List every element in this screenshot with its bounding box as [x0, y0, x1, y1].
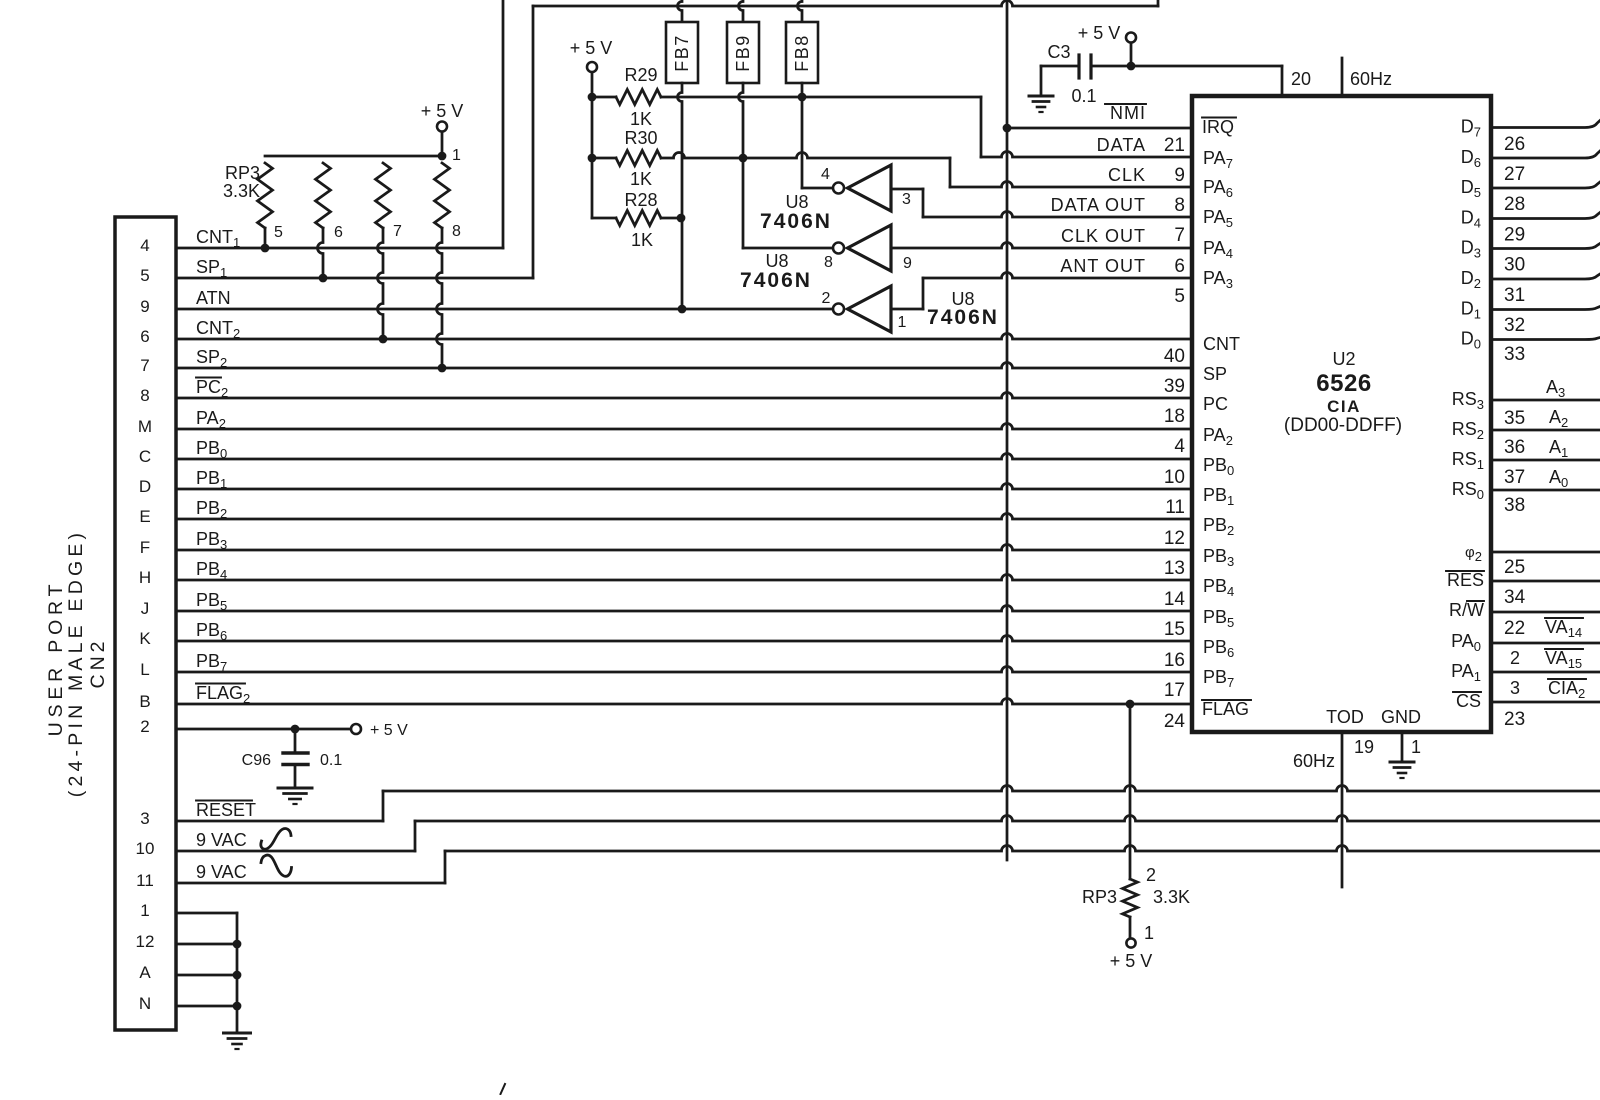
- svg-text:IRQ: IRQ: [1202, 117, 1234, 137]
- svg-text:37: 37: [1504, 467, 1525, 488]
- svg-text:FB9: FB9: [733, 34, 753, 72]
- svg-text:18: 18: [1164, 406, 1185, 427]
- svg-text:9 VAC: 9 VAC: [196, 862, 247, 882]
- svg-text:D: D: [139, 477, 151, 496]
- svg-text:CS: CS: [1456, 691, 1481, 711]
- svg-text:M: M: [138, 417, 152, 436]
- svg-text:29: 29: [1504, 225, 1525, 246]
- svg-text:16: 16: [1164, 650, 1185, 671]
- svg-text:9 VAC: 9 VAC: [196, 830, 247, 850]
- svg-text:60Hz: 60Hz: [1350, 69, 1392, 89]
- svg-text:22: 22: [1504, 618, 1525, 639]
- svg-text:1: 1: [452, 147, 461, 164]
- svg-text:U8: U8: [765, 251, 788, 271]
- svg-text:A: A: [139, 963, 151, 982]
- svg-text:C: C: [139, 447, 151, 466]
- svg-text:FLAG: FLAG: [1202, 699, 1249, 719]
- svg-text:8: 8: [140, 386, 149, 405]
- svg-text:DATA: DATA: [1097, 135, 1146, 155]
- svg-text:33: 33: [1504, 344, 1525, 365]
- svg-text:U2: U2: [1332, 349, 1355, 369]
- svg-text:38: 38: [1504, 495, 1525, 516]
- svg-text:25: 25: [1504, 557, 1525, 578]
- svg-text:0.1: 0.1: [1071, 86, 1096, 106]
- svg-text:27: 27: [1504, 164, 1525, 185]
- svg-text:3: 3: [1510, 678, 1520, 698]
- svg-text:9: 9: [1174, 165, 1185, 186]
- svg-text:4: 4: [1174, 436, 1185, 457]
- svg-text:19: 19: [1354, 737, 1374, 757]
- svg-text:R/W: R/W: [1449, 600, 1484, 620]
- svg-text:C3: C3: [1047, 42, 1070, 62]
- svg-text:7: 7: [140, 356, 149, 375]
- svg-text:12: 12: [136, 932, 155, 951]
- svg-text:FB8: FB8: [792, 34, 812, 72]
- svg-text:K: K: [139, 629, 151, 648]
- svg-text:7406N: 7406N: [760, 210, 832, 233]
- svg-text:RP3: RP3: [225, 163, 260, 183]
- svg-text:15: 15: [1164, 619, 1185, 640]
- svg-text:NMI: NMI: [1110, 103, 1146, 123]
- svg-text:RESET: RESET: [196, 800, 256, 820]
- svg-text:30: 30: [1504, 255, 1525, 276]
- svg-text:13: 13: [1164, 558, 1185, 579]
- svg-text:8: 8: [1174, 195, 1185, 216]
- svg-text:CN2: CN2: [87, 637, 109, 688]
- svg-text:34: 34: [1504, 587, 1526, 608]
- svg-text:9: 9: [903, 255, 912, 272]
- svg-text:FB7: FB7: [672, 34, 692, 72]
- svg-text:39: 39: [1164, 376, 1185, 397]
- svg-text:35: 35: [1504, 408, 1525, 429]
- svg-text:1: 1: [1144, 923, 1154, 943]
- svg-text:+ 5 V: + 5 V: [370, 722, 408, 739]
- svg-text:ATN: ATN: [196, 288, 231, 308]
- svg-text:(24-PIN MALE EDGE): (24-PIN MALE EDGE): [65, 529, 87, 797]
- svg-text:31: 31: [1504, 285, 1525, 306]
- svg-text:7406N: 7406N: [927, 306, 999, 329]
- svg-text:RP3: RP3: [1082, 887, 1117, 907]
- svg-text:2: 2: [822, 290, 831, 307]
- svg-text:6: 6: [1174, 256, 1185, 277]
- svg-text:(DD00-DDFF): (DD00-DDFF): [1284, 415, 1402, 436]
- svg-text:FLAG2: FLAG2: [196, 683, 250, 706]
- svg-text:7406N: 7406N: [740, 269, 812, 292]
- svg-text:5: 5: [140, 266, 149, 285]
- svg-text:4: 4: [821, 166, 830, 183]
- svg-text:3: 3: [140, 809, 149, 828]
- svg-text:23: 23: [1504, 709, 1525, 730]
- svg-text:R29: R29: [624, 65, 657, 85]
- svg-text:SP: SP: [1203, 364, 1227, 384]
- svg-text:R30: R30: [624, 128, 657, 148]
- svg-text:H: H: [139, 568, 151, 587]
- svg-text:+ 5 V: + 5 V: [421, 101, 464, 121]
- svg-text:1: 1: [1411, 737, 1421, 757]
- svg-text:26: 26: [1504, 134, 1525, 155]
- svg-text:ANT OUT: ANT OUT: [1060, 256, 1146, 276]
- svg-text:5: 5: [1174, 286, 1185, 307]
- svg-text:21: 21: [1164, 135, 1185, 156]
- svg-text:20: 20: [1291, 69, 1311, 89]
- svg-text:8: 8: [452, 223, 461, 240]
- svg-text:+ 5 V: + 5 V: [570, 38, 613, 58]
- svg-text:B: B: [139, 692, 150, 711]
- svg-text:1K: 1K: [630, 169, 652, 189]
- svg-text:F: F: [140, 538, 150, 557]
- svg-text:CLK: CLK: [1108, 165, 1146, 185]
- svg-text:R28: R28: [624, 190, 657, 210]
- svg-text:2: 2: [140, 717, 149, 736]
- svg-text:CNT: CNT: [1203, 334, 1240, 354]
- svg-text:GND: GND: [1381, 707, 1421, 727]
- svg-text:24: 24: [1164, 711, 1186, 732]
- svg-text:6: 6: [334, 224, 343, 241]
- svg-text:11: 11: [136, 871, 154, 890]
- svg-text:9: 9: [140, 297, 149, 316]
- svg-text:2: 2: [1510, 648, 1520, 668]
- svg-text:+ 5 V: + 5 V: [1110, 951, 1153, 971]
- svg-text:C96: C96: [242, 752, 271, 769]
- svg-text:N: N: [139, 994, 151, 1013]
- svg-text:1K: 1K: [630, 109, 652, 129]
- svg-text:5: 5: [274, 224, 283, 241]
- svg-text:1: 1: [898, 314, 907, 331]
- svg-text:0.1: 0.1: [320, 752, 342, 769]
- svg-text:7: 7: [393, 223, 402, 240]
- svg-text:2: 2: [1146, 865, 1156, 885]
- svg-text:U8: U8: [785, 192, 808, 212]
- svg-text:14: 14: [1164, 589, 1186, 610]
- svg-text:L: L: [140, 660, 149, 679]
- svg-text:6526: 6526: [1316, 370, 1371, 397]
- svg-text:1: 1: [140, 901, 149, 920]
- svg-text:USER PORT: USER PORT: [45, 580, 67, 737]
- svg-text:7: 7: [1174, 225, 1185, 246]
- svg-text:+ 5 V: + 5 V: [1078, 23, 1121, 43]
- svg-text:10: 10: [1164, 467, 1185, 488]
- svg-text:3.3K: 3.3K: [1153, 887, 1190, 907]
- svg-text:11: 11: [1165, 497, 1185, 518]
- svg-text:6: 6: [140, 327, 149, 346]
- svg-text:40: 40: [1164, 346, 1185, 367]
- svg-text:CLK OUT: CLK OUT: [1061, 226, 1146, 246]
- svg-text:36: 36: [1504, 437, 1525, 458]
- svg-text:28: 28: [1504, 194, 1525, 215]
- svg-text:12: 12: [1164, 528, 1185, 549]
- svg-text:PC: PC: [1203, 394, 1228, 414]
- svg-text:DATA OUT: DATA OUT: [1051, 195, 1146, 215]
- svg-text:E: E: [139, 507, 150, 526]
- svg-text:TOD: TOD: [1326, 707, 1364, 727]
- svg-text:17: 17: [1164, 680, 1185, 701]
- svg-text:8: 8: [824, 254, 833, 271]
- svg-text:32: 32: [1504, 315, 1525, 336]
- svg-text:1K: 1K: [631, 230, 653, 250]
- svg-text:3.3K: 3.3K: [223, 181, 260, 201]
- svg-text:J: J: [141, 599, 150, 618]
- svg-text:CIA: CIA: [1327, 397, 1361, 416]
- svg-text:10: 10: [136, 839, 155, 858]
- svg-text:60Hz: 60Hz: [1293, 751, 1335, 771]
- svg-text:4: 4: [140, 236, 149, 255]
- svg-text:RES: RES: [1447, 570, 1484, 590]
- svg-text:3: 3: [902, 191, 911, 208]
